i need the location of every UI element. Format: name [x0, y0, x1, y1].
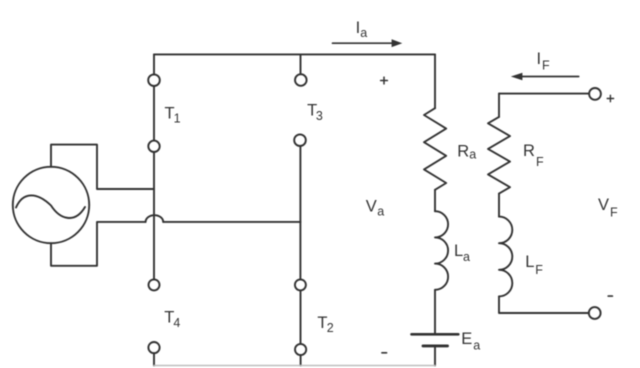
thyristor T1 bottom terminal: [148, 141, 159, 152]
label LF: [525, 253, 543, 277]
wire armature top: [434, 54, 436, 108]
current arrow Ia: [333, 39, 403, 47]
label VF: [598, 196, 618, 219]
current arrow IF: [511, 73, 579, 81]
wire T2 between terminals: [300, 290, 302, 344]
thyristor T2 top terminal: [295, 279, 306, 290]
wire field top: [499, 93, 589, 95]
label IF: [537, 50, 551, 72]
svg-text:I: I: [537, 50, 542, 68]
label Ra: [457, 143, 476, 162]
wire T1 leg upper: [153, 54, 155, 74]
wire La to battery: [434, 290, 436, 333]
svg-text:E: E: [461, 330, 472, 348]
field negative terminal: [589, 307, 601, 319]
wire T4 to bottom rail: [153, 353, 155, 365]
thyristor T4 top terminal: [149, 279, 160, 290]
thyristor T3 bottom terminal: [294, 134, 306, 146]
battery Ea negative plate: [423, 344, 448, 347]
node field minus: [608, 295, 612, 297]
wire bottom rail: [154, 365, 435, 367]
wire field top to RF: [498, 94, 500, 117]
svg-text:a: a: [463, 250, 470, 264]
svg-text:L: L: [525, 253, 534, 271]
wire RF to LF: [498, 194, 500, 217]
label T1: [165, 104, 181, 125]
svg-text:a: a: [360, 26, 367, 40]
thyristor T2 bottom terminal: [295, 344, 306, 355]
svg-text:F: F: [536, 155, 544, 169]
svg-text:V: V: [598, 196, 609, 214]
wire T2 to bottom rail: [300, 355, 302, 365]
inductor LF: [499, 217, 512, 297]
label T4: [164, 309, 180, 330]
AC source G1: [13, 167, 89, 243]
svg-text:3: 3: [316, 109, 323, 123]
node armature plus: [381, 77, 388, 84]
wire hop over T1 leg: [146, 215, 164, 222]
svg-text:a: a: [377, 204, 384, 218]
svg-text:R: R: [457, 143, 469, 161]
field positive terminal: [589, 88, 601, 100]
svg-text:4: 4: [173, 316, 180, 330]
label Ea: [461, 330, 480, 353]
battery Ea positive plate: [412, 333, 459, 336]
wire battery to bottom rail: [434, 348, 436, 366]
thyristor T4 bottom terminal: [148, 342, 159, 353]
label Ia: [356, 19, 368, 40]
svg-text:F: F: [610, 205, 618, 219]
svg-text:V: V: [366, 198, 377, 216]
wire T1 between terminals: [153, 86, 155, 141]
svg-text:F: F: [535, 263, 543, 277]
svg-text:a: a: [469, 148, 476, 162]
resistor RF: [488, 117, 510, 194]
wire source bottom lead: [51, 222, 146, 266]
inductor La: [435, 211, 448, 290]
thyristor T3 top terminal: [295, 74, 307, 86]
wire T3 leg upper: [300, 54, 302, 74]
svg-text:a: a: [473, 338, 480, 352]
wire middle phase to T3 leg: [163, 221, 300, 223]
svg-text:2: 2: [327, 321, 334, 335]
wire Ra to La: [434, 190, 436, 211]
svg-text:F: F: [542, 58, 550, 72]
node field plus: [607, 95, 613, 101]
resistor Ra: [424, 108, 446, 190]
wire T3-T2 leg: [299, 146, 301, 279]
label Va: [366, 198, 385, 219]
label T3: [307, 101, 323, 122]
svg-text:1: 1: [174, 111, 181, 125]
wire source top lead: [51, 145, 154, 189]
label T2: [317, 314, 333, 335]
wire T1-T4 leg: [153, 152, 155, 279]
svg-text:L: L: [454, 242, 463, 260]
wire top rail: [154, 53, 435, 55]
label RF: [523, 142, 544, 169]
wire LF to field bottom: [499, 296, 589, 313]
thyristor T1 top terminal: [148, 74, 160, 86]
svg-text:R: R: [523, 142, 535, 160]
label La: [454, 242, 470, 264]
node armature minus: [382, 352, 387, 354]
